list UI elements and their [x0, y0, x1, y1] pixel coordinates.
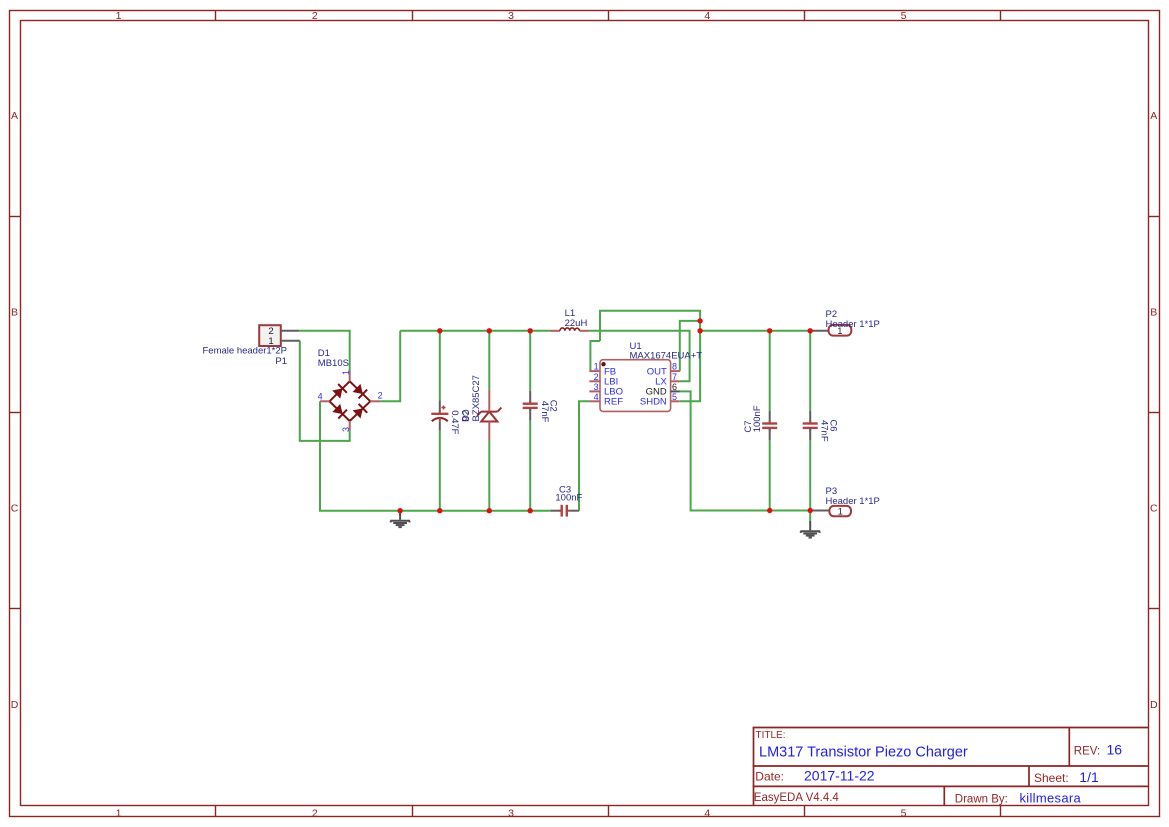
U1 pin stubs left	[589, 371, 600, 401]
svg-text:100nF: 100nF	[752, 405, 763, 432]
svg-text:4: 4	[318, 392, 323, 402]
bridge rectifier D1	[330, 381, 371, 421]
svg-text:5: 5	[901, 807, 907, 819]
svg-text:3: 3	[594, 382, 599, 392]
junction dots output node	[697, 318, 702, 333]
D1 diode bars	[338, 384, 367, 419]
D1 pin stubs	[320, 371, 380, 430]
svg-text:7: 7	[672, 372, 677, 382]
frame row letters right	[1150, 110, 1158, 711]
wire C2 branch	[529, 331, 531, 511]
svg-text:EasyEDA V4.4.4: EasyEDA V4.4.4	[754, 792, 840, 804]
svg-text:1: 1	[341, 370, 351, 375]
L1 coil	[560, 328, 580, 331]
svg-text:BZX85C27: BZX85C27	[471, 375, 482, 421]
D2 pin stubs	[488, 390, 490, 441]
svg-text:D: D	[1150, 699, 1158, 711]
svg-text:TITLE:: TITLE:	[756, 730, 786, 741]
svg-text:1: 1	[116, 807, 122, 819]
svg-text:6: 6	[672, 382, 677, 392]
U1 pin 6 stub (gray)	[671, 390, 680, 392]
svg-text:100nF: 100nF	[555, 493, 582, 504]
zener diode D2	[477, 408, 501, 422]
wire P1.1 to D1.3	[300, 341, 350, 441]
capacitor C2	[523, 391, 538, 421]
P3 labels	[826, 486, 880, 507]
U1 pin numbers	[594, 362, 677, 402]
svg-text:4: 4	[704, 10, 710, 22]
svg-text:P1: P1	[275, 356, 287, 367]
C8 labels (rotated, overlapping D2 label)	[449, 409, 471, 434]
frame column numbers bottom	[116, 807, 907, 819]
svg-text:2017-11-22: 2017-11-22	[804, 767, 875, 783]
svg-text:LM317 Transistor Piezo Charger: LM317 Transistor Piezo Charger	[759, 745, 968, 761]
wire C6 branch	[809, 331, 811, 521]
svg-text:5: 5	[901, 10, 907, 22]
wire D1.4 to ground rail	[319, 401, 321, 510]
connector P1	[259, 325, 300, 347]
svg-text:2: 2	[378, 391, 383, 401]
svg-text:A: A	[11, 110, 18, 122]
svg-text:MB10S: MB10S	[318, 358, 349, 369]
D2 labels (rotated)	[460, 375, 482, 422]
C2 labels (rotated)	[539, 400, 559, 423]
wire U1.6 GND to right ground rail	[680, 391, 811, 510]
wire bottom ground rail	[319, 510, 550, 512]
svg-text:Female header1*2P: Female header1*2P	[203, 346, 288, 357]
wire L1 to U1.7 LX	[589, 331, 689, 382]
C3 labels	[555, 485, 582, 504]
capacitor C3	[550, 505, 579, 517]
svg-text:REV:: REV:	[1074, 745, 1100, 757]
svg-text:8: 8	[672, 362, 677, 372]
ground right	[800, 521, 820, 538]
junction dots bottom rail	[397, 508, 813, 514]
svg-text:1/1: 1/1	[1079, 769, 1099, 785]
svg-text:4: 4	[704, 807, 710, 819]
svg-text:Drawn By:: Drawn By:	[955, 793, 1008, 805]
svg-text:MAX1674EUA+T: MAX1674EUA+T	[630, 350, 703, 361]
svg-text:A: A	[1150, 110, 1157, 122]
svg-text:GND: GND	[646, 387, 667, 398]
wire P1.2 to D1.1	[299, 331, 349, 371]
svg-text:4: 4	[594, 392, 599, 402]
svg-text:47nF: 47nF	[818, 420, 829, 442]
svg-text:47nF: 47nF	[539, 401, 550, 423]
svg-text:3: 3	[508, 807, 514, 819]
wire U1.4 REF to C3	[579, 401, 589, 510]
svg-text:1: 1	[116, 10, 122, 22]
title block	[753, 728, 1149, 806]
L1 labels	[565, 308, 588, 329]
capacitor C7	[762, 411, 777, 440]
svg-text:5: 5	[672, 392, 677, 402]
D1 labels	[318, 348, 349, 369]
ground left	[390, 511, 410, 527]
wire FB loop top	[590, 311, 700, 402]
wire D1.2 to top rail	[380, 331, 400, 402]
wire U1.8 OUT to node	[680, 321, 700, 371]
D1 diode arrows	[332, 384, 363, 419]
connector P2	[810, 325, 851, 336]
svg-text:D2: D2	[460, 410, 471, 422]
capacitor C8 (polarized)	[431, 400, 448, 430]
svg-text:1: 1	[838, 507, 843, 517]
svg-text:2: 2	[594, 372, 599, 382]
C6 labels (rotated)	[818, 419, 838, 441]
wire output rail to P2	[700, 330, 810, 332]
title block texts	[754, 730, 1122, 806]
svg-text:D: D	[11, 699, 19, 711]
svg-text:B: B	[11, 307, 18, 319]
svg-text:Header 1*1P: Header 1*1P	[826, 496, 880, 507]
frame row letters left	[11, 110, 19, 711]
svg-text:C: C	[11, 503, 19, 515]
P2 labels	[826, 309, 880, 330]
wire C8 branch	[439, 331, 441, 511]
D1 pin numbers	[318, 370, 383, 432]
svg-text:SHDN: SHDN	[640, 397, 667, 408]
svg-text:0.47F: 0.47F	[449, 410, 460, 434]
svg-text:C: C	[1150, 503, 1158, 515]
IC U1 MAX1674EUA+T	[600, 360, 671, 412]
capacitor C6	[803, 411, 818, 440]
svg-text:killmesara: killmesara	[1020, 791, 1082, 806]
svg-text:1: 1	[594, 362, 599, 372]
svg-text:REF: REF	[604, 397, 623, 408]
connector P3	[810, 506, 851, 517]
svg-text:2: 2	[312, 10, 318, 22]
wire top rail to L1	[400, 330, 550, 332]
svg-text:Header 1*1P: Header 1*1P	[826, 319, 880, 330]
U1 labels	[630, 341, 703, 361]
wire D2 branch	[488, 331, 490, 511]
svg-text:3: 3	[341, 427, 351, 432]
frame column numbers top	[116, 10, 907, 22]
svg-text:Sheet:: Sheet:	[1034, 771, 1069, 785]
junction dots top rail	[437, 328, 813, 333]
inductor L1	[550, 330, 590, 332]
P1 labels	[203, 346, 288, 368]
svg-text:2: 2	[312, 807, 318, 819]
U1 pin stubs right	[671, 371, 680, 401]
U1 pin names	[604, 366, 667, 407]
svg-text:Date:: Date:	[755, 769, 784, 783]
svg-text:3: 3	[508, 10, 514, 22]
svg-text:16: 16	[1107, 741, 1123, 757]
svg-text:22uH: 22uH	[565, 318, 588, 329]
C7 labels (rotated)	[743, 405, 763, 432]
svg-text:B: B	[1150, 307, 1157, 319]
wire C7 branch	[769, 331, 771, 511]
